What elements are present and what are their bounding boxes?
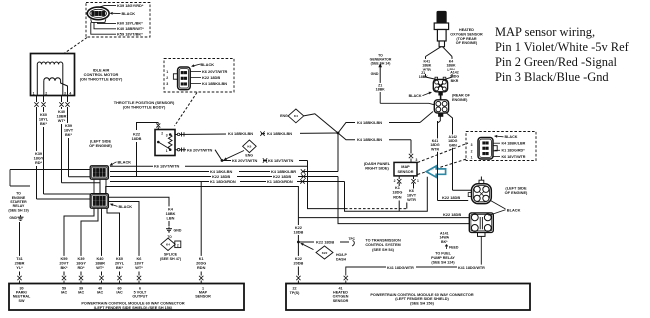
round connector - left side of engine (472, 184, 492, 204)
wire A142 right (451, 57, 453, 78)
svg-text:18VT: 18VT (64, 128, 74, 132)
svg-text:20VT: 20VT (59, 261, 69, 265)
svg-text:ENG: ENG (280, 114, 288, 118)
svg-text:BLACK: BLACK (505, 135, 518, 139)
svg-text:RD*: RD* (35, 161, 43, 165)
svg-text:K4 18BK/LBN: K4 18BK/LBN (357, 137, 382, 142)
wire K6 to MAP pin 1 (308, 161, 346, 209)
svg-text:HEATED: HEATED (459, 28, 474, 32)
MAP sensor box (394, 162, 417, 176)
BLACK label - engine connectors (491, 201, 506, 210)
svg-text:TP(S): TP(S) (290, 291, 300, 295)
svg-text:PUMP RELAY: PUMP RELAY (431, 256, 455, 260)
throttle position sensor box (155, 130, 175, 156)
svg-text:MAP: MAP (401, 165, 410, 169)
svg-text:K40 18BR/WT*: K40 18BR/WT* (117, 26, 144, 31)
dashed detail box - throttle position sensor connector (164, 59, 234, 93)
svg-text:BLACK: BLACK (119, 204, 133, 209)
svg-text:2: 2 (166, 76, 168, 80)
svg-text:18YL: 18YL (39, 117, 49, 121)
svg-text:K60 18YL/BK*: K60 18YL/BK* (117, 21, 143, 26)
BLACK label connector B (113, 205, 118, 207)
svg-text:IAC: IAC (116, 291, 123, 295)
wire K22 to fuel pump connector (338, 177, 469, 224)
node - K22 junction (297, 241, 300, 244)
dashed leaders MAP sensor to connector detail (418, 143, 469, 163)
svg-text:K59: K59 (65, 124, 72, 128)
svg-text:(SEE SH 19): (SEE SH 19) (8, 208, 28, 212)
svg-text:18GY: 18GY (34, 156, 44, 160)
MAP pin1 riser (406, 203, 408, 209)
svg-text:WTR: WTR (407, 198, 416, 202)
IAC pin3 wire K40 (61, 96, 63, 103)
cyan highlight arrow (426, 166, 445, 177)
svg-text:18DB: 18DB (293, 231, 303, 235)
BLACK label - TPS connector (194, 64, 200, 66)
svg-text:WT*: WT* (96, 266, 104, 270)
IAC coil upper (37, 62, 63, 64)
harness wire into connector A (10, 169, 90, 171)
svg-text:K39: K39 (35, 152, 42, 156)
svg-text:GND: GND (371, 72, 379, 76)
engine harness connector A (90, 166, 108, 179)
svg-text:RD*: RD* (77, 266, 85, 270)
svg-text:K6 18VT/WTN: K6 18VT/WTN (154, 164, 179, 169)
svg-text:OF ENGINE): OF ENGINE) (505, 190, 528, 195)
svg-text:RIGHT SIDE): RIGHT SIDE) (365, 166, 389, 171)
svg-text:2: 2 (177, 244, 179, 248)
svg-text:OUTPUT: OUTPUT (132, 295, 148, 299)
wire K22 from connector B to junction (106, 187, 299, 226)
IAC pin2 wire K60 (43, 96, 45, 103)
svg-text:OF ENGINE): OF ENGINE) (89, 143, 112, 148)
wire A141 feed labels (439, 231, 449, 244)
ENG diamond K6 (243, 140, 257, 153)
svg-text:Pin 1 Violet/White -5v Ref: Pin 1 Violet/White -5v Ref (495, 40, 630, 54)
dashed leader to IAC motor (64, 38, 87, 54)
powertrain control module box right (286, 284, 530, 311)
svg-text:20DB: 20DB (293, 261, 303, 265)
svg-text:YL*: YL* (16, 266, 23, 270)
wire T41 to PCM pin 30 (19, 222, 21, 256)
svg-text:(SEE SH 47): (SEE SH 47) (160, 257, 182, 261)
svg-text:K22: K22 (295, 257, 302, 261)
wire K22 into round connector (438, 200, 469, 202)
TPS pin1 wire K6 (175, 149, 215, 151)
wire to K40 label (94, 22, 116, 28)
svg-text:BLACK: BLACK (118, 159, 132, 164)
svg-text:(ON THROTTLE BODY): (ON THROTTLE BODY) (123, 104, 166, 109)
node - K6 junction (221, 159, 224, 162)
svg-text:(REAR OF: (REAR OF (452, 94, 471, 98)
svg-text:BK*: BK* (65, 133, 73, 137)
heated oxygen sensor symbol (437, 12, 446, 24)
svg-text:BLACK: BLACK (122, 11, 136, 16)
pin wire K22 label (190, 77, 201, 79)
wire K1 to PCM pin 1 MAP SENSOR (200, 182, 202, 257)
wire K41 left (425, 57, 427, 78)
svg-text:K1: K1 (199, 257, 205, 261)
powertrain control module box left (9, 284, 244, 311)
svg-text:RDN: RDN (393, 195, 402, 199)
svg-text:3: 3 (471, 143, 473, 147)
svg-text:(TOP REAR: (TOP REAR (456, 37, 476, 41)
node - K4 junction (337, 132, 340, 135)
svg-text:20BR: 20BR (15, 261, 25, 265)
svg-text:K6 20VT/WTN: K6 20VT/WTN (187, 147, 212, 152)
svg-text:SPLICE: SPLICE (164, 252, 178, 256)
svg-text:K22: K22 (322, 251, 328, 255)
BLACK label arrow - IAC connector (113, 12, 121, 14)
svg-text:WT*: WT* (135, 266, 143, 270)
svg-text:GRN: GRN (449, 143, 457, 147)
wire - MAP sensor top pin (410, 140, 412, 154)
svg-text:K4 18BK/LBN: K4 18BK/LBN (267, 131, 292, 136)
BLACK label connector A (112, 162, 116, 164)
svg-text:K22: K22 (133, 133, 140, 137)
svg-text:DASH: DASH (336, 257, 346, 261)
wire K22 to fuel pump upper pin (298, 217, 469, 219)
svg-text:K4 18BK/LBN: K4 18BK/LBN (228, 131, 253, 136)
svg-text:3: 3 (166, 134, 168, 138)
svg-text:K6: K6 (247, 145, 251, 149)
svg-text:3: 3 (416, 158, 418, 162)
svg-text:BLACK: BLACK (409, 94, 422, 98)
svg-text:4: 4 (69, 92, 71, 96)
svg-text:20DG: 20DG (196, 261, 206, 265)
bus wire K6 lower (110, 165, 308, 167)
svg-text:K4 18BK/LBN: K4 18BK/LBN (357, 120, 382, 125)
svg-text:K22: K22 (295, 226, 302, 230)
wire to K39 label (100, 6, 117, 8)
dashed leader to TPS (175, 93, 198, 127)
round connector - rear of engine (433, 79, 447, 91)
svg-text:18GY: 18GY (76, 261, 86, 265)
svg-text:K22 18DB: K22 18DB (316, 240, 334, 245)
connector A-B pin links (93, 179, 95, 194)
svg-text:K22 18DB: K22 18DB (443, 212, 461, 217)
svg-text:OXYGEN SENSOR: OXYGEN SENSOR (450, 32, 483, 36)
svg-text:SENSOR: SENSOR (333, 299, 349, 303)
svg-text:2: 2 (471, 150, 473, 154)
svg-text:1: 1 (33, 92, 35, 96)
svg-text:(LEFT FENDER SIDE SHIELD) (SEE: (LEFT FENDER SIDE SHIELD) (SEE SH 156) (94, 306, 173, 310)
svg-text:GND: GND (9, 216, 17, 220)
O2 sensor wires (426, 47, 442, 57)
svg-text:K4: K4 (166, 243, 170, 247)
svg-text:K1 18DG/RDN: K1 18DG/RDN (210, 179, 236, 184)
engine harness connector B (90, 194, 108, 209)
svg-text:POWERTRAIN CONTROL MODULE 60 W: POWERTRAIN CONTROL MODULE 60 WAY CONNECT… (370, 293, 473, 297)
svg-text:18BK: 18BK (166, 212, 176, 216)
svg-text:K40: K40 (96, 257, 103, 261)
svg-text:Pin 3 Black/Blue -Gnd: Pin 3 Black/Blue -Gnd (495, 70, 609, 84)
svg-text:CONTROL SYSTEM: CONTROL SYSTEM (365, 243, 400, 247)
svg-text:IAC: IAC (78, 291, 85, 295)
wire to K60 label (98, 22, 117, 23)
svg-text:K22 18DB: K22 18DB (442, 195, 460, 200)
svg-text:TO FUEL: TO FUEL (435, 252, 451, 256)
svg-text:18DB: 18DB (132, 137, 142, 141)
svg-text:IAC: IAC (61, 291, 68, 295)
svg-text:Pin 2 Green/Red -Signal: Pin 2 Green/Red -Signal (495, 55, 617, 69)
svg-text:K4: K4 (168, 207, 174, 211)
svg-text:K6 18VT/WTN: K6 18VT/WTN (268, 158, 293, 163)
svg-text:GND: GND (174, 229, 182, 233)
wire - K4 junction down to bus (337, 133, 339, 172)
svg-text:T41: T41 (16, 257, 23, 261)
IAC 4-way oval connector (87, 7, 109, 20)
bus wire K4 (110, 171, 338, 173)
svg-text:1: 1 (471, 156, 473, 160)
svg-text:(ON THROTTLE BODY): (ON THROTTLE BODY) (80, 77, 123, 82)
wire K22 to PCM pin 22 (297, 242, 299, 256)
wire A142 to left-side round connector (453, 189, 472, 191)
MAP 3-way connector (478, 138, 493, 160)
svg-text:HO/LP: HO/LP (336, 253, 347, 257)
wire to K59 label (91, 22, 116, 34)
ENG diamond K4 (288, 109, 304, 123)
MAP pin wire K6 label (493, 156, 500, 158)
svg-text:2: 2 (394, 179, 396, 183)
svg-text:3: 3 (64, 92, 66, 96)
svg-text:RDN: RDN (197, 266, 206, 270)
square connector - fuel pump feed (469, 213, 493, 233)
svg-text:18DG: 18DG (392, 191, 402, 195)
bus wire K22 (110, 176, 338, 178)
svg-text:18VT: 18VT (134, 261, 144, 265)
svg-text:BK*: BK* (441, 240, 448, 244)
svg-text:20YL: 20YL (115, 261, 125, 265)
bus wire K1 (110, 181, 345, 183)
wire K59 to PCM pin 59 (64, 208, 94, 256)
svg-text:MAP sensor wiring,: MAP sensor wiring, (495, 25, 595, 39)
svg-text:ENGINE): ENGINE) (452, 98, 468, 102)
svg-text:BK*: BK* (60, 266, 68, 270)
svg-text:K1: K1 (395, 186, 401, 190)
svg-text:K6: K6 (137, 257, 142, 261)
wire K60 to PCM pin 60 (107, 208, 120, 256)
svg-text:TPC: TPC (349, 237, 356, 241)
svg-text:WTR: WTR (431, 147, 440, 151)
idle air control motor box (31, 54, 75, 96)
svg-text:K4 18BK/LBR: K4 18BK/LBR (502, 142, 526, 146)
wire K1 to MAP pin 2 (345, 177, 428, 211)
TPS 3-way connector (178, 67, 191, 90)
svg-text:3: 3 (166, 82, 168, 86)
pin wire K6 label (190, 71, 201, 73)
wire K41 to PCM pin 41 (346, 236, 482, 275)
svg-text:K39 18GY/RD*: K39 18GY/RD* (117, 3, 144, 8)
svg-text:K6 18VT/WTR: K6 18VT/WTR (502, 155, 526, 159)
svg-text:22: 22 (292, 286, 296, 290)
svg-text:K59 18VT/BK*: K59 18VT/BK* (117, 31, 143, 36)
svg-text:1: 1 (166, 149, 168, 153)
wire K40 to PCM pin 40 (101, 208, 103, 256)
svg-text:K41 18DG/WTR: K41 18DG/WTR (387, 266, 414, 270)
K4 branch lower to MAP sensor (338, 133, 411, 140)
wire Z1 to rear connector (379, 66, 381, 83)
svg-text:LBN: LBN (167, 216, 175, 220)
svg-text:K1 18DG/RDN: K1 18DG/RDN (267, 179, 293, 184)
ground - splice K4 (168, 227, 170, 229)
svg-text:K6: K6 (409, 189, 414, 193)
svg-text:18VT: 18VT (407, 193, 417, 197)
svg-text:K60: K60 (116, 257, 123, 261)
TPS pin2 wire to K22 bus (157, 127, 159, 129)
svg-text:K40: K40 (58, 110, 65, 114)
dashed detail box - MAP sensor connector (466, 132, 536, 161)
wire K22 to transmission (298, 241, 314, 243)
svg-text:18BK: 18BK (376, 88, 386, 92)
svg-text:SENSOR: SENSOR (195, 295, 211, 299)
bus wire K6 from junction (222, 160, 308, 162)
svg-text:2: 2 (161, 132, 163, 136)
wire A142 down from rear connector (447, 113, 453, 190)
svg-text:18BR: 18BR (95, 261, 105, 265)
svg-text:K39: K39 (77, 257, 84, 261)
svg-text:K4: K4 (294, 114, 298, 118)
svg-text:BLACK: BLACK (507, 207, 521, 212)
svg-text:BK*: BK* (116, 266, 124, 270)
BLACK label - MAP connector (497, 135, 503, 138)
svg-text:SW: SW (19, 299, 25, 303)
svg-text:(SEE SH 54): (SEE SH 54) (372, 248, 394, 252)
svg-text:K6 20VT/WTN: K6 20VT/WTN (232, 158, 257, 163)
svg-text:TO TRANSMISSION: TO TRANSMISSION (365, 239, 401, 243)
svg-text:(LEFT FENDER SIDE SHIELD): (LEFT FENDER SIDE SHIELD) (395, 297, 449, 301)
svg-text:WT*: WT* (58, 119, 66, 123)
wire into connector B left (37, 198, 91, 200)
square connector - rear of engine (439, 92, 442, 95)
svg-text:2: 2 (45, 92, 47, 96)
MAP pin wire K4 label (493, 142, 500, 144)
pin wire K4 label (190, 83, 201, 85)
IAC coil lower (44, 78, 61, 81)
svg-text:K41 18DG/WTR: K41 18DG/WTR (458, 266, 485, 270)
svg-text:POWERTRAIN CONTROL MODULE 60 W: POWERTRAIN CONTROL MODULE 60 WAY CONNECT… (81, 301, 184, 305)
svg-text:IAC: IAC (97, 291, 104, 295)
svg-text:1: 1 (166, 70, 168, 74)
K4 branch upper to rear connector (338, 123, 420, 134)
MAP pin wire K1 label (495, 149, 501, 151)
svg-text:K22 18DB: K22 18DB (202, 75, 220, 80)
svg-text:18BR: 18BR (57, 114, 67, 118)
svg-text:FEED: FEED (449, 246, 459, 250)
TPS pin3 wire K4 (175, 133, 338, 135)
wire K39 to PCM pin 39 (81, 208, 98, 256)
svg-text:OF ENGINE): OF ENGINE) (456, 41, 478, 45)
IAC pin1 wire K39 (36, 96, 38, 103)
svg-text:K4 18BK/LBN: K4 18BK/LBN (202, 81, 227, 86)
svg-text:BLACK: BLACK (201, 62, 215, 67)
IAC pin4 wire K59 (67, 96, 69, 103)
wire K6 to PCM pin 6 (108, 202, 139, 257)
svg-text:K60: K60 (40, 113, 47, 117)
svg-text:SENSOR: SENSOR (397, 170, 413, 174)
svg-text:K6 20VT/WTR: K6 20VT/WTR (202, 69, 227, 74)
splice symbol K4 (161, 238, 175, 250)
svg-text:1: 1 (417, 179, 419, 183)
svg-text:K59: K59 (60, 257, 67, 261)
svg-text:(SEE SH 156): (SEE SH 156) (410, 302, 435, 306)
wire K4 to ground splice (108, 197, 169, 206)
svg-text:K1 18DG/RD*: K1 18DG/RD* (502, 149, 526, 153)
svg-text:BKR: BKR (451, 79, 459, 83)
wire K41 down from rear connector (439, 116, 441, 121)
K22 diamond HO/LP DASH (303, 244, 313, 249)
svg-text:(SEE SH 124): (SEE SH 124) (431, 260, 455, 264)
dashed detail box - idle air control connector (86, 3, 150, 38)
svg-text:BK*: BK* (40, 122, 48, 126)
